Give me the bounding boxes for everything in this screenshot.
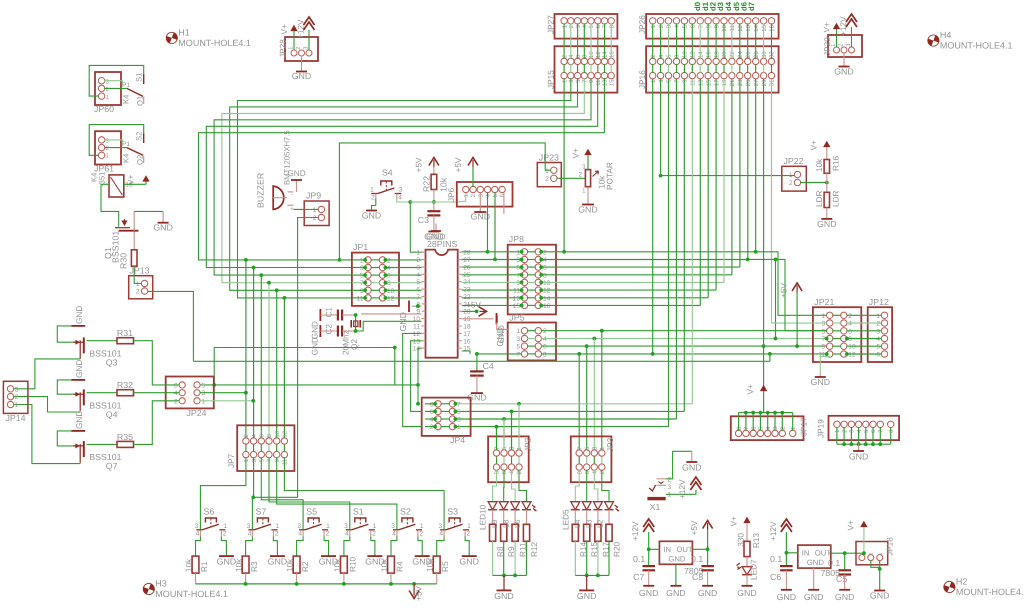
svg-text:17: 17 — [463, 331, 471, 338]
svg-text:V+: V+ — [280, 24, 289, 35]
switch S3 — [438, 507, 471, 538]
svg-text:2: 2 — [387, 257, 391, 264]
ground GND below JP28 — [292, 56, 312, 81]
wire C7 to IN — [647, 547, 660, 551]
svg-text:2: 2 — [599, 470, 606, 474]
svg-text:GND: GND — [849, 452, 869, 462]
svg-text:GND: GND — [811, 377, 831, 387]
wire JP14 pin1 to Q7 gate — [13, 405, 80, 464]
svg-text:9: 9 — [274, 458, 281, 462]
+5V symbol at JP6 — [454, 157, 478, 172]
svg-text:16: 16 — [543, 303, 551, 310]
svg-text:OUT: OUT — [676, 545, 693, 554]
svg-text:GND: GND — [75, 411, 84, 429]
svg-text:+12V: +12V — [769, 521, 778, 541]
wire +5V to JP21 row9 — [795, 292, 799, 348]
ground GND LED bank JP3 — [575, 574, 609, 602]
wire S7 to GND — [273, 537, 277, 556]
svg-text:H1: H1 — [178, 27, 190, 37]
svg-text:R2: R2 — [301, 561, 310, 572]
svg-text:R17: R17 — [601, 541, 610, 557]
wire JP2 pin top — [518, 404, 520, 451]
transistor Q4 BSS101 — [73, 389, 122, 419]
wire S5 to GND — [324, 537, 328, 556]
resistor R16 — [815, 147, 841, 173]
svg-text:6: 6 — [501, 470, 508, 474]
svg-text:5: 5 — [876, 344, 880, 351]
svg-text:8: 8 — [888, 429, 895, 433]
svg-text:4: 4 — [856, 429, 863, 433]
wire JP16 col1 down — [651, 79, 655, 356]
svg-text:GND: GND — [639, 588, 659, 598]
svg-text:JP17: JP17 — [800, 417, 809, 436]
svg-text:GND: GND — [153, 223, 173, 233]
svg-text:1: 1 — [516, 446, 523, 450]
wires JP17 bus — [739, 411, 793, 431]
svg-text:7: 7 — [602, 24, 609, 28]
+5V symbol at R22 — [415, 157, 439, 172]
ground GND below 7805-2 — [804, 568, 824, 602]
svg-text:2: 2 — [568, 24, 575, 28]
resistor R9 — [501, 510, 507, 576]
wire JP3 to LED — [594, 470, 598, 502]
svg-text:L3: L3 — [584, 519, 593, 528]
svg-text:2: 2 — [848, 313, 852, 320]
svg-text:10k: 10k — [815, 158, 824, 172]
svg-text:JP12: JP12 — [869, 297, 889, 307]
svg-text:8: 8 — [582, 54, 589, 58]
wire JP16 col15 to JP17 V+ — [763, 79, 765, 386]
connector JP7 — [227, 425, 295, 471]
wire JP14 pin3 to Q3 gate — [13, 359, 80, 389]
svg-text:6: 6 — [690, 24, 697, 28]
LED L4 — [582, 502, 591, 510]
svg-text:d7: d7 — [747, 2, 756, 11]
svg-text:Q4: Q4 — [106, 409, 118, 419]
svg-text:5: 5 — [202, 382, 206, 389]
svg-text:R11: R11 — [519, 542, 528, 557]
svg-text:8: 8 — [430, 401, 434, 408]
riser to JP21 row7 — [774, 258, 778, 341]
svg-text:MOUNT-HOLE4.1: MOUNT-HOLE4.1 — [155, 589, 228, 599]
svg-text:1: 1 — [360, 257, 364, 264]
svg-text:C1: C1 — [325, 307, 334, 318]
ground GND below C8 — [698, 570, 718, 598]
svg-text:13: 13 — [413, 338, 421, 345]
svg-text:26: 26 — [745, 51, 752, 58]
capacitor C1 — [320, 307, 355, 337]
wire S4 area light — [410, 201, 434, 203]
svg-text:L9: L9 — [490, 519, 499, 528]
wire JP61 loop — [89, 125, 144, 156]
svg-text:1: 1 — [668, 492, 672, 499]
svg-text:2: 2 — [136, 289, 140, 296]
svg-text:7: 7 — [494, 446, 501, 450]
wire S1 to resistor — [344, 537, 350, 557]
mounting hole H1 — [165, 27, 251, 48]
svg-text:2: 2 — [578, 172, 582, 179]
svg-text:+12V: +12V — [631, 521, 640, 541]
svg-text:11: 11 — [690, 79, 697, 86]
V+ symbol at JP29 — [823, 22, 840, 33]
svg-text:OUT: OUT — [815, 549, 832, 558]
svg-text:O2: O2 — [136, 155, 145, 165]
wire +5V rail — [196, 582, 437, 586]
svg-text:JP16: JP16 — [638, 70, 647, 89]
relay contact S1 (K4) — [122, 73, 145, 106]
svg-text:4: 4 — [485, 193, 492, 197]
svg-text:JP18: JP18 — [886, 537, 895, 556]
junction col15 row9 — [762, 344, 766, 348]
ground GND below C4 — [467, 376, 487, 403]
resistor R2 10k — [286, 556, 311, 584]
svg-text:GND: GND — [817, 219, 837, 229]
svg-text:2: 2 — [543, 249, 547, 256]
svg-text:R20: R20 — [613, 541, 622, 557]
switch S2 — [391, 507, 424, 538]
svg-text:2: 2 — [295, 46, 302, 50]
svg-text:12: 12 — [413, 331, 421, 338]
ground GND at Q4 — [71, 360, 85, 380]
V+ symbol at R16 — [810, 140, 830, 151]
resistor LDR — [815, 190, 841, 207]
wire JP24 pin1 right — [200, 399, 256, 403]
svg-text:4: 4 — [196, 531, 200, 538]
label R15 — [590, 541, 599, 557]
wire C4 line left part — [477, 353, 522, 355]
svg-text:5: 5 — [758, 426, 765, 430]
svg-text:4: 4 — [416, 272, 420, 279]
wire S4 pin2 to GND — [372, 199, 376, 210]
svg-text:8: 8 — [387, 280, 391, 287]
svg-text:16: 16 — [769, 24, 776, 31]
svg-text:L4: L4 — [573, 519, 582, 528]
svg-text:IN: IN — [663, 545, 671, 554]
wire JP60 pin3 — [104, 81, 122, 86]
svg-text:2: 2 — [106, 145, 110, 152]
svg-text:4: 4 — [345, 531, 349, 538]
resistor R30 — [131, 232, 137, 267]
svg-text:11: 11 — [357, 295, 364, 302]
connector JP19 — [817, 416, 900, 440]
svg-text:1: 1 — [463, 193, 470, 197]
svg-text:5: 5 — [575, 79, 582, 83]
ground GND below 7805-1 — [666, 564, 686, 598]
svg-text:JP7: JP7 — [227, 453, 236, 468]
svg-text:13: 13 — [513, 295, 521, 302]
svg-text:4: 4 — [251, 434, 258, 438]
svg-text:10k: 10k — [286, 558, 295, 572]
svg-text:1: 1 — [326, 523, 330, 530]
svg-text:7: 7 — [516, 272, 520, 279]
svg-text:R35: R35 — [117, 432, 133, 442]
svg-text:V+: V+ — [730, 516, 739, 527]
crystal Q2 20Mhz — [342, 320, 361, 355]
svg-text:-: - — [291, 191, 293, 198]
svg-text:S1: S1 — [353, 507, 364, 517]
svg-text:6: 6 — [499, 193, 506, 197]
svg-text:2: 2 — [658, 24, 665, 28]
svg-text:2: 2 — [545, 176, 549, 183]
LED light arrows — [615, 505, 620, 511]
wire JP14 pin2 to Q4 gate — [13, 397, 80, 412]
wire JP2 pin top — [503, 419, 505, 450]
svg-text:2: 2 — [223, 531, 227, 538]
svg-text:2: 2 — [516, 470, 523, 474]
wires JP7 to switches — [200, 457, 444, 530]
wire JP2 pin top — [511, 411, 513, 450]
svg-text:Q3: Q3 — [106, 357, 118, 367]
svg-text:4: 4 — [765, 426, 772, 430]
svg-text:R16: R16 — [832, 155, 841, 171]
svg-text:3: 3 — [438, 523, 442, 530]
svg-text:14: 14 — [602, 51, 609, 58]
svg-text:3: 3 — [416, 265, 420, 272]
svg-text:+12V: +12V — [678, 479, 687, 499]
wires through JP1 to IC — [352, 258, 422, 300]
LED L2 — [605, 502, 614, 510]
svg-text:Q2: Q2 — [350, 339, 359, 350]
svg-text:14: 14 — [753, 24, 760, 31]
svg-text:1: 1 — [243, 458, 250, 462]
svg-text:L2: L2 — [596, 519, 605, 528]
svg-text:GND: GND — [287, 169, 305, 178]
wire S6 to resistor — [196, 537, 201, 557]
V+ symbol at K4 — [143, 176, 149, 181]
wire JP8 row2 ext to JP21 row5 — [746, 258, 827, 331]
svg-text:V+: V+ — [127, 174, 136, 185]
wire R32 to JP24 pin4 — [134, 392, 180, 394]
svg-text:L8: L8 — [502, 519, 511, 528]
ground GND below JP19 — [849, 444, 869, 461]
svg-text:2: 2 — [174, 398, 178, 405]
ground GND right of IC — [495, 313, 505, 347]
svg-text:6: 6 — [666, 54, 673, 58]
svg-text:MOUNT-HOLE4.1: MOUNT-HOLE4.1 — [178, 38, 251, 48]
svg-text:12: 12 — [690, 51, 697, 58]
wire C6 to IN2 — [785, 551, 798, 555]
label LED — [502, 519, 511, 528]
svg-text:22: 22 — [729, 51, 736, 58]
svg-text:7: 7 — [416, 294, 420, 301]
resistor R10 10k — [333, 556, 358, 584]
svg-text:330: 330 — [737, 533, 746, 547]
svg-text:2: 2 — [275, 531, 279, 538]
potentiometer POTAR 10k — [582, 162, 614, 194]
svg-text:16: 16 — [608, 51, 615, 58]
+12V symbol at JP28 — [297, 17, 315, 39]
net labels d0-d7 — [693, 1, 756, 11]
ground GND below JP18 — [870, 591, 890, 601]
connector JP26 — [638, 14, 779, 39]
wires JP16 to JP4 and JP2 — [455, 79, 692, 450]
resistor R5 10k — [426, 556, 451, 584]
wire JP8 row1 ext to JP21 row1 — [754, 250, 827, 315]
junction JP1 row1 left — [338, 258, 342, 262]
svg-text:GND: GND — [777, 592, 797, 602]
svg-text:10k: 10k — [426, 558, 435, 572]
wire JP9 pin2 down — [251, 218, 318, 530]
wire S3 to resistor — [437, 537, 444, 557]
svg-text:4: 4 — [543, 257, 547, 264]
resistor R31 — [117, 328, 134, 344]
wires JP1 rows to JP7 — [244, 258, 286, 439]
svg-text:2: 2 — [789, 180, 793, 187]
svg-text:12: 12 — [387, 295, 395, 302]
svg-text:6: 6 — [575, 54, 582, 58]
capacitor C4 — [470, 361, 494, 376]
ground GND at S4 — [362, 211, 382, 221]
svg-text:+5V: +5V — [415, 157, 424, 172]
svg-text:6: 6 — [750, 426, 757, 430]
label JP12 — [869, 297, 889, 307]
resistor R35 — [117, 432, 134, 447]
wire crystal vertical — [354, 313, 358, 333]
wire JP23 pin2 to POTAR — [557, 172, 586, 179]
LED L9 — [499, 502, 508, 510]
label R14 — [579, 541, 588, 557]
connector JP17 — [731, 416, 809, 440]
svg-text:2: 2 — [561, 54, 568, 58]
svg-text:10: 10 — [413, 316, 421, 323]
label LED10 — [479, 504, 488, 530]
svg-text:2: 2 — [106, 86, 110, 93]
svg-text:8: 8 — [576, 470, 583, 474]
svg-text:13: 13 — [602, 79, 609, 86]
svg-text:10: 10 — [682, 51, 689, 58]
+5V symbol at C8 — [690, 520, 713, 535]
svg-text:2: 2 — [371, 195, 375, 202]
wire S1 to GND — [371, 537, 375, 556]
label R17 — [601, 541, 610, 557]
wires JP8 rows to JP16 — [462, 79, 756, 307]
wire +5V to JP6 pin2 — [472, 167, 474, 188]
voltage regulator IC3 7805 — [798, 545, 840, 578]
svg-text:3: 3 — [509, 446, 516, 450]
svg-text:18: 18 — [463, 324, 471, 331]
svg-text:10: 10 — [721, 24, 728, 31]
ground GND at buzzer — [287, 169, 305, 192]
capacitor C6 — [770, 554, 793, 582]
svg-text:7: 7 — [582, 79, 589, 83]
wire JP61 pin2 to P1 — [104, 147, 127, 149]
ground GND below C3 — [424, 215, 444, 241]
wire JP6 pin4 down — [486, 192, 490, 254]
svg-text:JP22: JP22 — [784, 156, 804, 166]
svg-text:16: 16 — [705, 51, 712, 58]
svg-text:5: 5 — [863, 429, 870, 433]
svg-text:5: 5 — [516, 344, 520, 351]
svg-text:3: 3 — [592, 446, 599, 450]
svg-text:GND: GND — [217, 557, 237, 567]
svg-text:6: 6 — [259, 434, 266, 438]
svg-text:5: 5 — [666, 79, 673, 83]
svg-text:C8: C8 — [692, 572, 703, 582]
wire JP28 pin1 to V+ — [293, 31, 295, 50]
svg-text:17: 17 — [713, 79, 720, 86]
svg-text:2: 2 — [313, 215, 317, 222]
svg-text:R9: R9 — [507, 546, 516, 557]
svg-text:27: 27 — [463, 257, 471, 264]
svg-text:POTAR: POTAR — [606, 162, 615, 190]
svg-text:8: 8 — [543, 272, 547, 279]
svg-text:4: 4 — [439, 531, 443, 538]
svg-text:1: 1 — [516, 249, 520, 256]
svg-text:K4: K4 — [122, 94, 131, 104]
connector JP5 — [508, 313, 556, 361]
resistor R22 — [422, 167, 449, 193]
label R11 — [519, 542, 528, 557]
ground GND at S5 — [319, 556, 339, 566]
LED light arrows — [532, 505, 537, 511]
connector JP6 — [447, 182, 513, 207]
wire JP60 loop — [89, 65, 144, 96]
svg-text:K4: K4 — [122, 153, 131, 163]
svg-text:JP8: JP8 — [509, 234, 524, 244]
svg-text:7: 7 — [674, 79, 681, 83]
wire Q3 drain to R31 — [87, 340, 117, 342]
wire JP2 to LED — [519, 470, 527, 502]
svg-text:1: 1 — [416, 250, 420, 257]
label LED — [573, 519, 582, 528]
svg-text:2: 2 — [430, 424, 434, 431]
svg-text:2: 2 — [650, 54, 657, 58]
V+ symbol at R13 — [730, 516, 751, 527]
LED LED7 — [742, 559, 759, 580]
wire JP2 pin top — [496, 427, 498, 451]
LED LED10 — [488, 502, 497, 510]
svg-text:JP6: JP6 — [447, 187, 456, 202]
connector JP14 — [3, 381, 28, 423]
connector JP3 — [571, 436, 615, 482]
wire buzzer+ to JP9 pin1 — [293, 208, 318, 210]
label LED — [490, 519, 499, 528]
svg-text:25: 25 — [745, 79, 752, 86]
svg-text:15: 15 — [513, 303, 521, 310]
capacitor C5 — [828, 553, 851, 584]
svg-text:14: 14 — [413, 346, 421, 353]
svg-text:JP28: JP28 — [279, 39, 288, 58]
svg-text:JP1: JP1 — [353, 242, 368, 252]
svg-text:2: 2 — [419, 531, 423, 538]
ground GND below JP6 — [471, 192, 491, 221]
svg-text:19: 19 — [721, 79, 728, 86]
svg-text:4: 4 — [387, 265, 391, 272]
svg-text:31: 31 — [769, 79, 776, 86]
wire JP16 col2 down — [660, 79, 662, 176]
resistor R20 — [606, 510, 612, 576]
svg-text:2: 2 — [470, 193, 477, 197]
buzzer BUZZER BMT1205XH7.5 — [256, 130, 295, 213]
wire JP2 to LED — [493, 470, 497, 502]
LED7 light arrows — [737, 563, 742, 570]
svg-text:1: 1 — [373, 523, 377, 530]
svg-text:1: 1 — [202, 398, 206, 405]
wire R35 to JP24 pin2 — [134, 401, 180, 445]
wire JP3 to LED — [586, 470, 588, 502]
wire R13 to LED7 — [746, 557, 748, 567]
svg-text:16: 16 — [463, 338, 471, 345]
svg-text:2: 2 — [416, 257, 420, 264]
svg-text:1: 1 — [561, 24, 568, 28]
svg-text:2: 2 — [467, 531, 471, 538]
svg-text:1: 1 — [561, 79, 568, 83]
svg-text:JP21: JP21 — [814, 297, 834, 307]
connector JP24 — [166, 377, 214, 419]
svg-text:GND: GND — [834, 67, 854, 77]
svg-text:3: 3 — [251, 458, 258, 462]
wire IC pin19 to GND — [462, 318, 494, 320]
